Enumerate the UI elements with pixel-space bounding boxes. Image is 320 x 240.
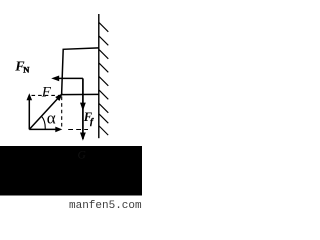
normal force F_N arrow (pointing left from point P0) xyxy=(51,76,83,82)
dashed parallelogram right side xyxy=(61,97,63,129)
svg-text:α: α xyxy=(47,109,56,128)
svg-text:G: G xyxy=(78,150,87,162)
wall hatching xyxy=(99,22,109,135)
horizontal component arrow (right) xyxy=(29,127,62,133)
svg-text:F: F xyxy=(41,85,52,101)
dashed parallelogram top side xyxy=(32,94,61,96)
applied force F arrow (diagonal) xyxy=(29,93,63,129)
block (box against wall) xyxy=(62,48,99,95)
black censor bar xyxy=(0,146,142,196)
wall (vertical line) xyxy=(98,14,100,138)
svg-text:N: N xyxy=(23,65,30,75)
dashed horizontal extension at bottom xyxy=(68,129,88,131)
svg-text:manfen5.com: manfen5.com xyxy=(69,200,142,209)
gravity / downward force line with two arrowheads xyxy=(80,78,86,140)
svg-text:f: f xyxy=(90,116,94,126)
angle arc xyxy=(42,116,46,129)
vertical component arrow (up) xyxy=(27,93,33,129)
